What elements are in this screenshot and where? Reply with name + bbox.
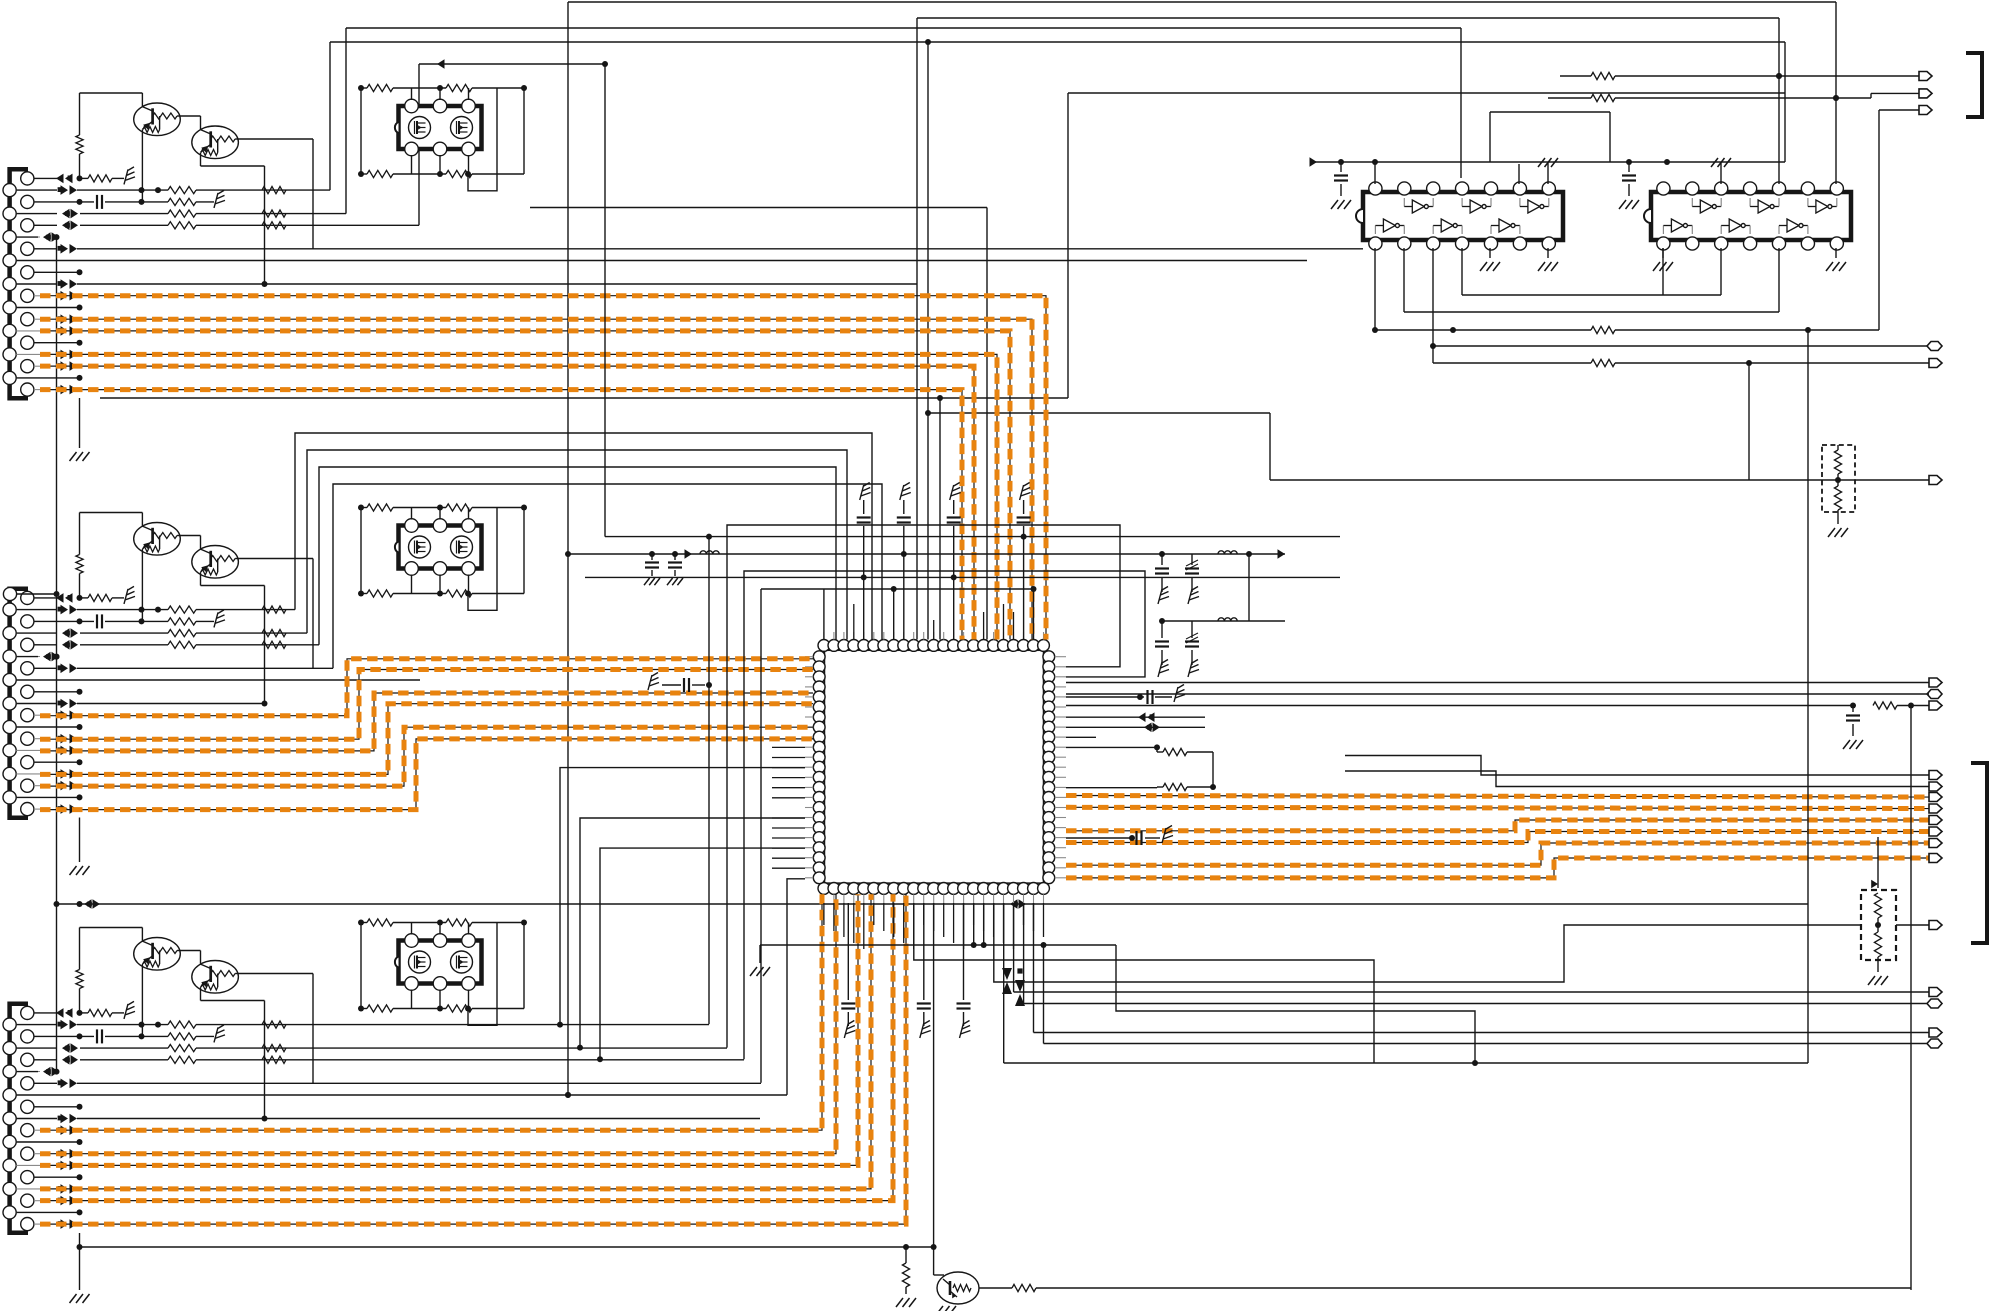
terminal [1919, 106, 1932, 115]
wire [925, 39, 931, 640]
inductor [1218, 551, 1237, 554]
ferrite bead [58, 746, 77, 756]
wire [597, 848, 805, 1062]
bus wire (orange) [40, 670, 813, 740]
ground [644, 578, 660, 585]
wire [1270, 413, 1929, 480]
wire stub [34, 1104, 83, 1110]
wire [412, 155, 469, 174]
resistor [902, 1247, 909, 1294]
ground flag [950, 483, 961, 501]
resistor [168, 1021, 196, 1028]
wire [360, 508, 362, 594]
wire [1024, 1003, 1929, 1005]
terminal [1929, 701, 1942, 710]
wire bundleP [333, 484, 882, 668]
resistor [1012, 1284, 1911, 1291]
resistor [262, 187, 286, 194]
ferrite bead [58, 314, 77, 324]
wire L7 [34, 244, 1363, 254]
bus wire (orange) [40, 739, 813, 810]
resistor row [358, 170, 524, 177]
bus wire (orange) [1066, 796, 1929, 798]
terminal [1929, 359, 1942, 368]
ground flag [1158, 660, 1169, 678]
bus wire (orange) [40, 693, 813, 751]
resistor [1834, 445, 1841, 524]
rail B [565, 549, 1162, 559]
wire L7 [34, 664, 333, 674]
resistor [168, 210, 196, 217]
IC U1 pins [813, 640, 1054, 895]
connector J2 pins [3, 591, 34, 815]
wire L10 [16, 699, 267, 709]
bus wire (orange) [40, 331, 1010, 640]
bus wire (orange) [40, 894, 858, 1165]
ferrite bead [34, 174, 83, 184]
wire L2 [16, 185, 330, 195]
wire [201, 153, 265, 284]
wire [1066, 744, 1160, 750]
mosfet pack U2 [395, 99, 482, 156]
connector J1 pins [3, 172, 34, 396]
ferrite bead [16, 652, 59, 662]
wire [468, 508, 497, 611]
wire [557, 768, 805, 1028]
capacitor [645, 554, 659, 576]
resistor [1560, 72, 1615, 79]
wire bundleP [307, 450, 847, 640]
wire [1462, 294, 1721, 296]
ground [896, 1298, 916, 1307]
rail A [605, 534, 1340, 540]
mosfet [409, 536, 431, 558]
wire [80, 928, 143, 942]
resistor [80, 594, 125, 601]
capacitor [34, 195, 168, 209]
ground [1331, 200, 1351, 209]
bus wire (orange) [40, 894, 822, 1130]
wire x79.5 c2 [79, 818, 81, 863]
wire bead [1066, 712, 1205, 722]
mosfet [451, 117, 473, 139]
resistor row [358, 919, 527, 926]
wire [1372, 159, 1378, 184]
terminal [1929, 476, 1942, 485]
terminal [1927, 1039, 1942, 1048]
wire [1345, 756, 1929, 776]
wire [77, 1244, 934, 1250]
dashed box B [1861, 890, 1896, 960]
capacitor [1155, 621, 1169, 665]
connector J1 [10, 169, 28, 398]
bus wire (orange) [1066, 832, 1929, 843]
transistor Q6 [192, 961, 239, 994]
wire bundleQ2 [727, 525, 1120, 1048]
wire [523, 923, 525, 1009]
connector J3 pins [3, 1006, 34, 1230]
resistor [1874, 893, 1881, 972]
wire top y2 [568, 1, 1836, 3]
wire L7 [34, 1079, 761, 1089]
resistor [1873, 702, 1929, 709]
ground [1653, 248, 1673, 271]
transistor Q5 [134, 938, 181, 971]
resistor [262, 1021, 286, 1028]
wire top y28 [346, 28, 1461, 214]
ground flag [214, 190, 225, 208]
wire L8 [16, 679, 420, 681]
terminals [1929, 771, 1942, 792]
wire L2 [16, 1020, 709, 1030]
wire stub [16, 375, 82, 381]
IC U8 pins [1369, 182, 1556, 250]
ferrite bead [16, 232, 59, 242]
mosfet [451, 536, 473, 558]
ground flag [960, 1021, 971, 1039]
ferrite bead [58, 1184, 77, 1194]
terminal [1929, 988, 1942, 997]
wire bottom pin fan [824, 903, 1044, 949]
resistor row [358, 590, 524, 597]
wire [201, 987, 265, 1118]
wire [914, 903, 1374, 1063]
IC U8 body [1356, 192, 1563, 240]
rail C [585, 574, 1340, 580]
resistor [262, 630, 286, 637]
ferrite bead [58, 361, 77, 371]
ground flag [1188, 660, 1199, 678]
transistor Q7 [937, 1272, 979, 1304]
wire L5 [34, 1055, 744, 1065]
wire [931, 903, 944, 1275]
ferrite bead [34, 593, 83, 603]
ferrite bead [58, 781, 77, 791]
resistor [76, 928, 83, 1013]
wire [1248, 554, 1250, 621]
resistor [168, 630, 196, 637]
wire [1066, 693, 1929, 695]
terminal [1927, 342, 1942, 351]
wire L10 [16, 279, 917, 289]
ground flag [1188, 587, 1199, 605]
wire [1066, 786, 1157, 789]
wire L4 [16, 1043, 727, 1053]
wire [1066, 703, 1914, 709]
resistor [168, 1056, 196, 1063]
wire [1033, 903, 1035, 1033]
terminal [1929, 1028, 1942, 1037]
wire [1433, 360, 1752, 366]
wire [1159, 549, 1285, 559]
capacitor [668, 554, 682, 576]
wire [412, 923, 469, 935]
capacitor [917, 903, 931, 1026]
ferrite bead [58, 734, 77, 744]
node [3, 587, 59, 600]
ground flag [1158, 587, 1169, 605]
connector J2 [10, 589, 28, 818]
wire bundleP [319, 467, 836, 645]
capacitor [1017, 500, 1031, 640]
wire [1375, 327, 1811, 333]
wire [1910, 706, 1912, 1291]
wire [1066, 682, 1929, 684]
ferrite [1002, 968, 1025, 1006]
wire [412, 508, 469, 520]
capacitor [857, 500, 871, 640]
wire [1404, 248, 1779, 312]
mosfet [451, 951, 473, 973]
ground flag [920, 1021, 931, 1039]
wire [1776, 18, 1782, 184]
resistor [1450, 326, 1879, 333]
inductor [1218, 618, 1237, 621]
ferrite bead [34, 1008, 83, 1018]
connector stubs [16, 178, 40, 389]
wire [360, 923, 362, 1009]
IC U1 (QFP) body [825, 650, 1044, 883]
wire [201, 572, 265, 703]
terminal [1919, 72, 1932, 81]
wire [1615, 93, 1919, 101]
wire [1159, 618, 1285, 624]
terminal [1927, 999, 1942, 1008]
wire bus x56.5 [54, 237, 60, 1072]
wire top pin fan [854, 604, 1014, 640]
IC U1 pin stubs [805, 632, 1066, 903]
wire [360, 88, 362, 174]
wire y413 [925, 410, 1270, 416]
ground [1843, 740, 1863, 749]
ferrite bead [58, 1149, 77, 1159]
wire L5 [34, 64, 419, 230]
wire [1310, 112, 1786, 167]
mosfet [409, 117, 431, 139]
ground [1619, 200, 1639, 209]
resistor [168, 1033, 214, 1040]
capacitor [662, 678, 705, 692]
wire [979, 1287, 1012, 1289]
wires [974, 903, 984, 945]
resistor pair [1157, 747, 1216, 790]
wire [1433, 345, 1929, 347]
wire stub [16, 724, 82, 730]
capacitor [947, 500, 961, 640]
ground flag [214, 1025, 225, 1043]
resistor row [358, 1005, 524, 1012]
wire x79.5 c3 [79, 1233, 81, 1290]
wire top y18 [917, 18, 1779, 640]
resistor row [358, 504, 527, 511]
wire arrow [1871, 837, 1878, 888]
wire stub [16, 794, 82, 800]
ferrite bead [58, 350, 77, 360]
connector J3 [10, 1004, 28, 1233]
bus wire (orange) [1066, 820, 1929, 831]
ground [70, 452, 90, 461]
wire L8 [16, 1094, 787, 1096]
resistor [168, 606, 196, 613]
transistor Q1 [134, 103, 181, 136]
resistor [168, 618, 214, 625]
wire top y42 [330, 42, 1785, 190]
wire [1013, 903, 1015, 992]
ground [750, 967, 770, 976]
wire [1403, 248, 1405, 312]
mosfet [409, 951, 431, 973]
inductor [700, 551, 719, 554]
wire stub [34, 340, 83, 346]
wire [1720, 248, 1722, 295]
wire [1043, 945, 1045, 1044]
wire [80, 93, 143, 107]
transistor Q4 [192, 546, 239, 579]
ground flag [1020, 483, 1031, 501]
wire [1014, 991, 1929, 993]
wire y207 [530, 208, 987, 640]
connector stubs [16, 1013, 40, 1224]
wire [1066, 694, 1143, 700]
wire x568 [565, 2, 571, 1098]
wire L5 [34, 640, 319, 650]
wire x79.5 c1 [79, 398, 81, 448]
IC U9 pins [1657, 182, 1844, 250]
ground [1868, 976, 1888, 985]
bus wire (orange) [40, 319, 1032, 639]
wire [180, 951, 200, 965]
ground flag [900, 483, 911, 501]
ground [70, 866, 90, 875]
wire [412, 88, 469, 100]
wire [238, 139, 313, 249]
wire [141, 130, 143, 202]
wire bundleQ3 [744, 571, 1145, 1059]
wire [523, 88, 525, 174]
wire [1615, 73, 1919, 79]
capacitor [34, 1029, 168, 1043]
ferrite bead [58, 1196, 77, 1206]
wire [141, 964, 143, 1036]
ground flag [1174, 685, 1185, 703]
ground [936, 1306, 956, 1311]
ground flag [214, 610, 225, 628]
capacitor [1622, 159, 1636, 196]
bus wire (orange) [40, 366, 974, 639]
wire [238, 559, 313, 669]
wire [412, 575, 469, 594]
ground flag [844, 1021, 855, 1039]
wire y904 [54, 899, 1809, 909]
wire [1004, 1060, 1808, 1066]
bus wire (orange) [1066, 858, 1929, 878]
connector stubs [16, 598, 40, 809]
bus wire (orange) [40, 296, 1046, 640]
wire [1116, 945, 1475, 1063]
dashed box R [1822, 445, 1855, 512]
ground [70, 1294, 90, 1303]
ground [667, 578, 683, 585]
resistor row [358, 84, 527, 91]
wire [1044, 1043, 1930, 1045]
capacitor [1334, 162, 1348, 196]
ferrite bead [58, 804, 77, 814]
wire [1023, 903, 1025, 1004]
mosfet pack U4 [395, 934, 482, 991]
wire [180, 536, 200, 550]
wire [1879, 110, 1919, 330]
bus wire (orange) [40, 727, 813, 786]
wire [1662, 248, 1664, 295]
resistor [1591, 359, 1929, 366]
wire L8 [16, 260, 1307, 262]
wire y398 [100, 395, 1068, 401]
resistor [168, 222, 196, 229]
wire bead [1066, 723, 1205, 733]
terminals [1929, 793, 1942, 863]
ferrite bead [58, 385, 77, 395]
capacitor [897, 500, 911, 640]
wire left pin stubs [772, 747, 805, 868]
wire [1034, 1032, 1930, 1034]
bracket [1971, 763, 1987, 943]
wire [1003, 903, 1005, 1063]
wire stub [34, 759, 83, 765]
bus wire (orange) [40, 704, 813, 775]
resistor [262, 1045, 286, 1052]
wire stub [34, 1174, 83, 1180]
capacitor [34, 614, 168, 628]
transistor Q2 [192, 126, 239, 159]
wire [468, 923, 497, 1026]
ground flag [124, 1001, 135, 1019]
wire [565, 879, 805, 1098]
ground [1480, 248, 1500, 271]
capacitor [841, 903, 855, 1026]
wire [412, 990, 469, 1009]
wire bundleQ1 [706, 534, 712, 1025]
resistor [80, 175, 125, 182]
wire x605 [604, 64, 606, 537]
ground [1826, 248, 1846, 271]
wire stub [16, 1139, 82, 1145]
resistor [262, 641, 286, 648]
ground [1538, 248, 1558, 271]
IC U8 inverters [1375, 198, 1548, 234]
capacitor [1155, 554, 1169, 592]
wire [760, 942, 1116, 948]
wire bundleP [295, 433, 872, 640]
ground flag [860, 483, 871, 501]
wire [141, 549, 143, 621]
wire [1833, 2, 1839, 184]
ground flag [648, 673, 659, 691]
ground [1828, 528, 1848, 537]
wire stub [34, 689, 83, 695]
wire L2 [16, 605, 295, 615]
ferrite bead [58, 326, 77, 336]
capacitor hatch [1185, 621, 1199, 665]
wire y93-right [1068, 42, 1785, 398]
transistor Q3 [134, 523, 181, 556]
wire y64 [419, 59, 608, 69]
ferrite bead [58, 769, 77, 779]
bus wire (orange) [1066, 843, 1929, 865]
resistor [168, 641, 196, 648]
bus wire (orange) [40, 894, 836, 1153]
resistor [262, 210, 286, 217]
resistor [262, 606, 286, 613]
